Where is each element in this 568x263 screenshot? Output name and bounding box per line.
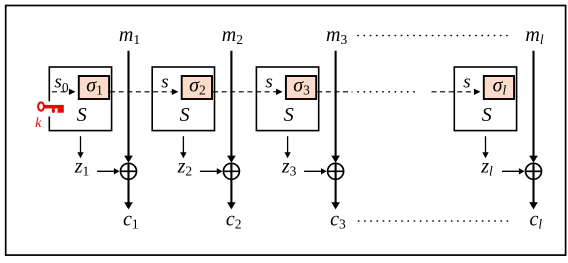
svg-text:z2: z2 bbox=[177, 156, 193, 179]
svg-text:c1: c1 bbox=[123, 209, 139, 232]
wire zl into XOR bbox=[502, 170, 519, 172]
arrowhead m3 into XOR bbox=[331, 156, 340, 163]
wire keystream z3 out of S box bbox=[287, 136, 289, 153]
key icon white halo bbox=[44, 101, 65, 116]
svg-text:S: S bbox=[482, 104, 492, 126]
wire m3 (vertical into XOR) bbox=[335, 51, 337, 157]
arrowhead zl into XOR bbox=[519, 168, 525, 174]
XOR gate (stage 2) bbox=[223, 163, 239, 179]
XOR gate (stage 3) bbox=[328, 163, 344, 179]
wire ml (vertical into XOR) bbox=[532, 51, 534, 157]
svg-text:k: k bbox=[35, 116, 42, 131]
svg-text:s: s bbox=[161, 72, 168, 93]
state register box S (stage l) bbox=[454, 67, 516, 131]
wire keystream z1 out of S box bbox=[80, 136, 82, 153]
wire m1 (vertical into XOR) bbox=[127, 51, 129, 157]
svg-text:c2: c2 bbox=[226, 209, 242, 232]
state register box S (stage 3) bbox=[256, 67, 318, 131]
dotted continuation of state wire bbox=[358, 91, 418, 93]
arrowhead z1 into XOR bbox=[114, 168, 120, 174]
svg-text:m1: m1 bbox=[119, 24, 140, 47]
svg-text:s0: s0 bbox=[54, 72, 68, 96]
svg-text:z1: z1 bbox=[74, 156, 90, 179]
wire m2 (vertical into XOR) bbox=[230, 51, 232, 157]
svg-text:ml: ml bbox=[525, 24, 543, 47]
arrowhead m2 into XOR bbox=[227, 156, 236, 163]
svg-text:cl: cl bbox=[529, 209, 542, 232]
svg-text:m2: m2 bbox=[222, 24, 243, 47]
wire cl (XOR output, vertical) bbox=[532, 163, 534, 203]
svg-text:c3: c3 bbox=[330, 209, 346, 232]
arrowhead into sigma2 bbox=[172, 89, 179, 95]
XOR gate (stage l) bbox=[526, 163, 542, 179]
wire s (dashed, state into sigmal) bbox=[432, 91, 475, 93]
arrowhead into sigma1 bbox=[69, 89, 76, 95]
svg-text:S: S bbox=[180, 104, 190, 126]
wire s (dashed, state from sigma1 to sigma2) bbox=[110, 91, 172, 93]
svg-text:S: S bbox=[284, 104, 294, 126]
arrowhead m1 into XOR bbox=[124, 156, 133, 163]
wire z3 into XOR bbox=[304, 170, 321, 172]
next-state function block sigma1 bbox=[79, 76, 109, 99]
state register box S (stage 1) bbox=[49, 67, 111, 131]
svg-text:z3: z3 bbox=[281, 156, 297, 179]
svg-text:s: s bbox=[463, 72, 470, 93]
arrowhead z2 down bbox=[180, 152, 186, 158]
state register box S (stage 2) bbox=[152, 67, 214, 131]
arrowhead into sigmal bbox=[474, 89, 481, 95]
svg-text:zl: zl bbox=[480, 156, 493, 179]
arrowhead ciphertext wire c1 bbox=[124, 202, 133, 209]
svg-text:S: S bbox=[77, 104, 87, 126]
arrowhead ciphertext wire c3 bbox=[331, 202, 340, 209]
wire z2 into XOR bbox=[200, 170, 217, 172]
wire c1 (XOR output, vertical) bbox=[127, 163, 129, 203]
next-state function block sigmal bbox=[484, 76, 514, 99]
arrowhead ciphertext wire cl bbox=[529, 202, 538, 209]
dotted continuation of m labels row bbox=[358, 35, 513, 37]
wire c2 (XOR output, vertical) bbox=[230, 163, 232, 203]
arrowhead ciphertext wire c2 bbox=[227, 202, 236, 209]
arrowhead into sigma3 bbox=[276, 89, 283, 95]
wire s (dashed, state from sigma2 to sigma3) bbox=[213, 91, 276, 93]
next-state function block sigma2 bbox=[182, 76, 212, 99]
wire z1 into XOR bbox=[97, 170, 114, 172]
svg-text:s: s bbox=[265, 72, 272, 93]
arrowhead z3 into XOR bbox=[321, 168, 327, 174]
arrowhead z1 down bbox=[77, 152, 83, 158]
next-state function block sigma3 bbox=[286, 76, 316, 99]
dotted continuation of c labels row bbox=[359, 220, 514, 222]
arrowhead z3 down bbox=[284, 152, 290, 158]
wire c3 (XOR output, vertical) bbox=[335, 163, 337, 203]
XOR gate (stage 1) bbox=[121, 163, 137, 179]
arrowhead ml into XOR bbox=[529, 156, 538, 163]
wire keystream zl out of S box bbox=[485, 136, 487, 153]
arrowhead zl down bbox=[482, 152, 488, 158]
wire s (dashed, state out of sigma3) bbox=[317, 91, 352, 93]
wire keystream z2 out of S box bbox=[182, 136, 184, 153]
key icon (secret key k) bbox=[38, 102, 44, 110]
arrowhead z2 into XOR bbox=[217, 168, 223, 174]
svg-text:m3: m3 bbox=[326, 24, 347, 47]
wire s0 (dashed, initial state into sigma1) bbox=[52, 91, 69, 93]
